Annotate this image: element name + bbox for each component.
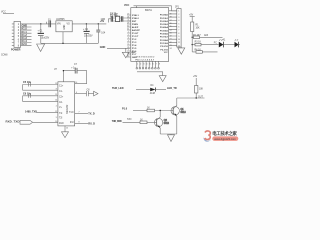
MCU bottom pin numbers <box>131 52 168 62</box>
port P1 serial <box>6 120 58 125</box>
junction <box>62 43 63 44</box>
capacitor C3 104 <box>96 24 106 43</box>
svg-text:P0.6/A6: P0.6/A6 <box>160 33 169 36</box>
svg-text:15: 15 <box>66 127 68 129</box>
resistor R7 <box>140 119 154 123</box>
ground <box>122 52 129 58</box>
svg-text:P1.3: P1.3 <box>132 42 137 44</box>
wire MAX232 gnd <box>64 126 66 132</box>
node P1.1 <box>112 119 140 123</box>
junction <box>196 97 197 98</box>
junction <box>40 23 41 24</box>
ground <box>62 132 69 138</box>
capacitor C8 to gnd <box>75 89 94 96</box>
svg-text:12M: 12M <box>101 19 106 21</box>
svg-text:GND: GND <box>131 52 136 54</box>
svg-text:5: 5 <box>150 64 151 66</box>
svg-text:10u/25V: 10u/25V <box>84 35 93 37</box>
connector J1 <box>11 22 21 52</box>
svg-text:XTAL2: XTAL2 <box>132 17 140 20</box>
header pin labels <box>137 64 160 66</box>
capacitor C2 (output electrolytic) <box>83 24 93 43</box>
node P3.7 LED line <box>112 87 150 90</box>
svg-text:3: 3 <box>143 64 144 66</box>
svg-text:T2I: T2I <box>59 118 63 120</box>
svg-text:7: 7 <box>178 30 179 32</box>
svg-text:A03: A03 <box>204 34 209 37</box>
svg-text:LED_TR: LED_TR <box>167 87 177 90</box>
svg-text:P0.5/A5: P0.5/A5 <box>160 29 169 32</box>
svg-text:TX_D: TX_D <box>88 112 95 115</box>
svg-text:TXD_RXD: TXD_RXD <box>112 120 122 123</box>
transistor Q2 <box>154 111 169 135</box>
resistor R1 <box>191 22 200 32</box>
svg-text:电工技术之家: 电工技术之家 <box>212 130 237 137</box>
svg-text:MAX232: MAX232 <box>66 104 69 114</box>
regulator U1 LM7805 <box>56 19 72 32</box>
MCU bottom header stubs <box>137 61 159 67</box>
svg-text:C2-: C2- <box>59 102 63 104</box>
capacitor C5 loop <box>23 81 58 90</box>
svg-text:P1.0/T: P1.0/T <box>132 33 139 35</box>
svg-text:P1.0: P1.0 <box>122 107 128 110</box>
svg-text:POWER: POWER <box>11 48 21 51</box>
svg-text:3: 3 <box>178 17 179 19</box>
net labels on J1 pins <box>22 25 28 47</box>
wire R1IN <box>75 122 95 125</box>
svg-text:VCC: VCC <box>164 52 169 54</box>
watermark banner <box>212 136 238 141</box>
wire gnd drop <box>170 133 172 136</box>
wire +5V output line <box>72 23 106 25</box>
wire regulator gnd <box>62 32 64 44</box>
junction <box>86 23 87 24</box>
header pads <box>136 67 159 69</box>
svg-text:10: 10 <box>178 39 180 41</box>
svg-text:P0.2/A2: P0.2/A2 <box>160 20 169 23</box>
wire emitter rail <box>160 133 177 135</box>
svg-text:39 38 37 36 35 34 33 32: 39 38 37 36 35 34 33 32 <box>136 57 154 59</box>
MCU left pin names <box>132 14 141 59</box>
svg-text:P0.0/A0: P0.0/A0 <box>160 14 169 17</box>
svg-text:FC: FC <box>214 43 217 45</box>
svg-text:6: 6 <box>76 92 77 94</box>
svg-text:P0.3/A3: P0.3/A3 <box>160 23 169 26</box>
svg-text:OUT: OUT <box>198 96 203 98</box>
svg-text:6: 6 <box>153 64 154 66</box>
svg-text:2: 2 <box>140 64 141 66</box>
MAX232 right pin numbers <box>75 82 79 124</box>
svg-text:24: 24 <box>170 48 172 50</box>
svg-text:8: 8 <box>178 33 179 35</box>
svg-text:P0.4/A4: P0.4/A4 <box>160 26 169 29</box>
svg-text:4: 4 <box>146 64 147 66</box>
LED D2 <box>214 39 226 48</box>
svg-text:9013: 9013 <box>181 112 187 114</box>
MCU left pin stubs <box>127 15 131 57</box>
svg-text:P1.1/T: P1.1/T <box>132 36 139 38</box>
transistor Q1 <box>171 98 186 134</box>
svg-text:16: 16 <box>75 82 77 84</box>
MCU right pin numbers <box>170 14 172 51</box>
svg-text:T1O: T1O <box>69 112 74 114</box>
capacitor C4 series bars <box>46 19 51 27</box>
node P1.0 <box>122 107 147 110</box>
JP1 pin numbers <box>178 11 180 48</box>
diode D4 <box>150 85 156 95</box>
svg-text:RX_D: RX_D <box>88 122 95 125</box>
svg-text:GND: GND <box>100 46 106 49</box>
svg-text:P0.0 .1 .2 .3 .4 .5 .6 .7: P0.0 .1 .2 .3 .4 .5 .6 .7 <box>136 58 155 61</box>
svg-text:VIN: VIN <box>57 23 61 25</box>
svg-text:P0.7/A7: P0.7/A7 <box>160 36 169 39</box>
ground power port arrow <box>94 91 98 96</box>
svg-text:9: 9 <box>56 117 57 119</box>
svg-text:11: 11 <box>178 42 180 44</box>
svg-text:www.dgjs123.com: www.dgjs123.com <box>214 137 236 141</box>
wire power input line <box>21 23 56 25</box>
svg-text:1488_TXD: 1488_TXD <box>25 110 37 113</box>
ground <box>37 44 45 52</box>
J1 pin stubs left <box>12 24 14 46</box>
wire GND pin <box>100 46 130 52</box>
wire J1 pin stub nets <box>21 27 32 46</box>
svg-text:9013: 9013 <box>164 123 170 125</box>
svg-text:PSEN: PSEN <box>132 24 138 26</box>
wire <box>156 89 167 91</box>
svg-text:P2.1/A9: P2.1/A9 <box>160 42 169 45</box>
svg-text:2: 2 <box>178 14 179 16</box>
resistor R2 <box>192 34 222 38</box>
resistor R6 <box>147 108 171 112</box>
node +5V transistor pull <box>193 76 198 98</box>
svg-text:GND: GND <box>64 24 66 29</box>
capacitor C7 loop top <box>54 64 87 84</box>
junction <box>192 44 193 45</box>
ground <box>168 135 175 142</box>
svg-text:EA/VPP: EA/VPP <box>132 29 141 32</box>
wire beep line <box>177 96 205 98</box>
capacitor C3 C4 crystal labels <box>101 12 119 20</box>
svg-text:9: 9 <box>178 36 179 38</box>
svg-text:THR_LED: THR_LED <box>112 87 124 90</box>
MAX232 pin numbers <box>55 83 57 123</box>
svg-text:CON8: CON8 <box>1 54 8 56</box>
wire VCC top rail <box>134 6 177 11</box>
wire R1 feed <box>191 32 193 52</box>
svg-text:12: 12 <box>178 45 180 47</box>
svg-text:6: 6 <box>178 26 179 28</box>
svg-text:P1.7: P1.7 <box>132 54 137 56</box>
watermark logo <box>203 131 211 142</box>
MCU right pin names <box>160 14 169 52</box>
svg-text:VO: VO <box>67 23 71 25</box>
svg-text:+5V: +5V <box>193 76 198 78</box>
svg-text:5: 5 <box>178 23 179 25</box>
svg-text:T1I: T1I <box>59 113 63 115</box>
svg-text:4: 4 <box>178 20 179 22</box>
wire gnd rail <box>41 42 99 44</box>
wire T1IN <box>25 110 58 113</box>
svg-text:T2O: T2O <box>127 119 132 121</box>
node VCC top-left <box>1 12 6 14</box>
svg-text:P1.5: P1.5 <box>132 48 137 50</box>
junction <box>98 23 99 24</box>
svg-text:P1.4: P1.4 <box>132 44 137 47</box>
svg-text:1: 1 <box>178 11 179 13</box>
capacitor C1 (input electrolytic) <box>38 24 50 43</box>
svg-text:R1O: R1O <box>59 123 64 125</box>
svg-text:10K: 10K <box>196 27 201 29</box>
connector JP1 <box>175 7 181 47</box>
svg-text:P1.2: P1.2 <box>132 39 137 41</box>
JP1 ground <box>178 47 185 54</box>
svg-text:4148: 4148 <box>150 93 156 95</box>
svg-text:2: 2 <box>56 105 57 107</box>
svg-text:89C51: 89C51 <box>145 10 152 12</box>
LED D3 <box>235 39 241 47</box>
resistor R5 <box>195 86 204 94</box>
MCU right pin stubs to JP1 <box>169 11 177 46</box>
svg-text:1: 1 <box>137 64 138 66</box>
IC U2 MCU 89C52 <box>124 4 169 61</box>
svg-text:C1-: C1- <box>59 91 63 93</box>
svg-text:10u/25V: 10u/25V <box>41 38 50 40</box>
svg-text:10K: 10K <box>199 88 204 90</box>
svg-text:RST: RST <box>132 21 137 23</box>
svg-text:R1I: R1I <box>70 122 74 124</box>
svg-text:P2.2/10: P2.2/10 <box>160 46 168 48</box>
resistor R3 <box>192 41 218 46</box>
node +5V right <box>189 15 195 22</box>
svg-text:RXD_TXD: RXD_TXD <box>6 120 20 124</box>
svg-text:XTAL1: XTAL1 <box>132 14 140 17</box>
wire <box>223 44 234 46</box>
wire <box>3 13 14 15</box>
svg-text:C1+: C1+ <box>59 86 64 88</box>
crystal Y1 with caps <box>109 16 131 22</box>
svg-text:VCC: VCC <box>124 4 129 7</box>
svg-text:7: 7 <box>156 64 157 66</box>
svg-text:+ C1: + C1 <box>38 31 44 33</box>
svg-text:+ 1u: + 1u <box>71 67 76 69</box>
resistor R4 <box>192 49 217 53</box>
MCU left pin numbers <box>127 14 129 58</box>
capacitor C6 loop <box>23 92 58 101</box>
svg-text:C2+: C2+ <box>59 97 64 99</box>
IC U3 MAX232 <box>58 82 75 126</box>
svg-text:ALE/P: ALE/P <box>132 26 139 29</box>
ground <box>159 76 166 82</box>
svg-text:8: 8 <box>159 64 160 66</box>
wire bottom gnd rail <box>137 72 163 76</box>
svg-text:P2.0/A8: P2.0/A8 <box>160 39 169 42</box>
junction <box>160 110 161 111</box>
wire T1OUT <box>75 112 95 115</box>
junction <box>192 37 193 38</box>
svg-text:P0.1/A1: P0.1/A1 <box>160 17 169 20</box>
